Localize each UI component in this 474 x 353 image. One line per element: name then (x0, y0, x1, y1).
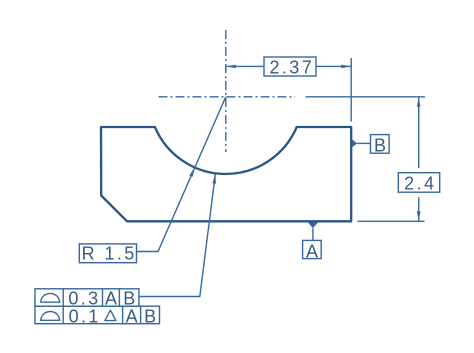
svg-text:0.1: 0.1 (69, 306, 101, 326)
row 2 dynamic profile modifier triangle (105, 310, 116, 320)
part outline (101, 127, 351, 221)
feature control frame row 1 outer box (35, 289, 139, 306)
svg-text:R 1.5: R 1.5 (82, 244, 137, 264)
dimension 2.4 bottom arrowhead (417, 211, 421, 221)
svg-text:B: B (144, 306, 158, 326)
feature control frame row 1 cell dividers (63, 289, 119, 306)
dimension 2.4 dimension line lower segment (418, 197, 420, 220)
dimension 2.37 extension line (350, 58, 352, 122)
row 1 profile of a surface symbol (41, 293, 60, 302)
svg-text:A: A (126, 306, 140, 326)
row 2 profile of a surface symbol (41, 311, 60, 320)
svg-text:2.37: 2.37 (269, 58, 314, 78)
radius callout R1.5 frame (79, 244, 136, 263)
dimension 2.37 dimension line left segment (227, 65, 264, 67)
dimension 2.37 basic frame (264, 57, 316, 76)
dimension 2.37 dimension line right segment (316, 65, 351, 67)
dimension 2.37 right arrowhead (341, 65, 351, 69)
feature control frame leader arrowhead (212, 174, 216, 184)
datum feature A frame (303, 240, 322, 258)
svg-text:A: A (306, 241, 320, 261)
datum feature B frame (371, 135, 390, 154)
radius leader arrowhead at arc (189, 167, 195, 177)
feature control frame row 2 cell dividers (63, 306, 140, 324)
dimension 2.4 bottom extension line (358, 220, 425, 222)
datum feature A triangle (308, 222, 318, 228)
feature control frame leader line (139, 174, 216, 297)
dimension 2.4 dimension line upper segment (418, 97, 420, 168)
horizontal centerline (159, 96, 296, 98)
datum feature B triangle (352, 139, 358, 148)
feature control frame row 2 outer box (35, 306, 160, 324)
dimension 2.37 left arrowhead (226, 65, 236, 69)
radius leader line (137, 97, 226, 252)
dimension 2.4 top arrowhead (417, 97, 421, 107)
datum feature A stem (312, 228, 314, 240)
dimension 2.4 basic frame (398, 173, 439, 193)
svg-text:2.4: 2.4 (404, 174, 436, 194)
vertical centerline (225, 30, 227, 152)
datum feature B stem (357, 142, 370, 144)
dimension 2.4 top extension line (306, 96, 426, 98)
svg-text:B: B (374, 135, 388, 155)
